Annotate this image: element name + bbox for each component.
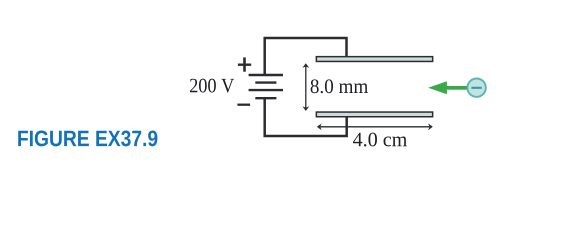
wire from battery + terminal up and right to top plate bbox=[265, 38, 347, 76]
battery value label 200 V bbox=[190, 79, 234, 93]
dimension arrow 4.0 cm (plate length, double-headed horizontal) bbox=[317, 123, 433, 130]
electron (negative charge, teal circle) bbox=[467, 79, 485, 97]
electron velocity arrow (green, pointing left) bbox=[428, 81, 467, 94]
dimension arrow 8.0 mm (plate gap, double-headed vertical) bbox=[302, 63, 309, 111]
battery + polarity sign bbox=[238, 57, 251, 71]
wire from battery - terminal down and right to bottom plate bbox=[265, 98, 347, 136]
top capacitor plate bbox=[316, 57, 432, 62]
bottom capacitor plate bbox=[316, 112, 432, 117]
battery - polarity sign bbox=[237, 104, 250, 106]
battery B1 (200 V): two cells, long/short plates bbox=[249, 75, 283, 98]
gap value label 8.0 mm bbox=[311, 79, 368, 93]
figure caption FIGURE EX37.9 bbox=[18, 131, 157, 147]
plate length label 4.0 cm bbox=[353, 133, 407, 147]
